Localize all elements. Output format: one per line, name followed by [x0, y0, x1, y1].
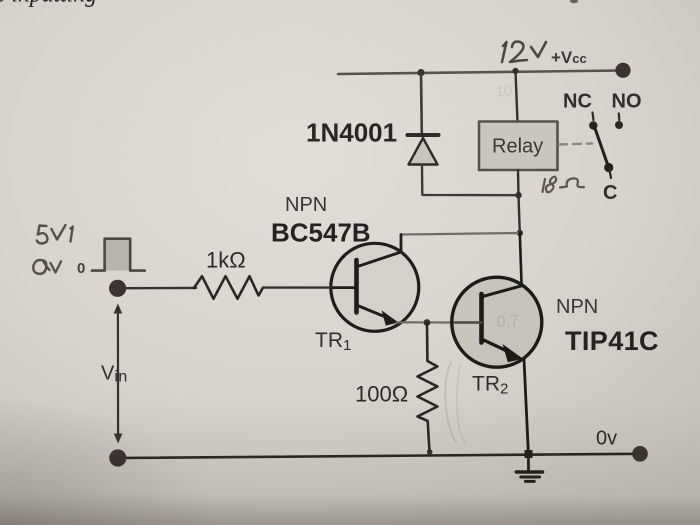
transistor Q1 BC547B circle	[331, 243, 419, 331]
switch arm	[595, 127, 609, 167]
relay box	[479, 122, 558, 171]
Q1 base bar	[354, 260, 359, 313]
dashed relay linkage	[559, 144, 592, 145]
wire diode branch upper	[420, 73, 423, 134]
wire input to resistor	[126, 287, 196, 290]
Q1 emitter stroke with arrow	[358, 306, 389, 319]
svg-text:C: C	[603, 182, 617, 204]
wire junction to TR2 collector	[520, 233, 522, 286]
wire relay branch upper	[516, 71, 518, 122]
resistor R1 1k zigzag	[194, 276, 263, 299]
node junction relay branch on Vcc rail	[512, 68, 518, 74]
Q2 base bar	[479, 294, 484, 343]
Vin arrow double-headed	[114, 304, 123, 444]
wire diode branch lower	[422, 165, 519, 196]
node junction ground stub	[525, 450, 533, 458]
svg-text:NC: NC	[563, 91, 592, 113]
svg-text:0.7: 0.7	[496, 312, 519, 331]
svg-text:+Vcc: +Vcc	[551, 48, 587, 67]
node junction diode branch on Vcc rail	[417, 69, 424, 76]
Q2 collector stroke	[483, 286, 522, 297]
Q1 collector stroke	[358, 235, 402, 267]
switch C contact	[604, 163, 613, 172]
label 0v 0 handwritten	[33, 260, 61, 274]
svg-text:0: 0	[77, 260, 85, 277]
svg-text:NPN: NPN	[556, 296, 598, 318]
diode 1N4001	[408, 135, 439, 165]
svg-text:1N4001: 1N4001	[306, 118, 397, 148]
label 18 ohm handwritten	[543, 177, 585, 193]
svg-text:e inputting: e inputting	[0, 0, 97, 8]
ghost pencil scribble left of TR2	[445, 362, 456, 442]
node junction emitter/base/resistor	[424, 319, 431, 326]
node junction diode-relay	[515, 192, 521, 198]
wire relay to collector junction	[518, 170, 520, 233]
svg-text:Relay: Relay	[492, 136, 543, 158]
terminal input top	[109, 280, 126, 297]
pulse waveform symbol	[106, 240, 131, 271]
wire resistor to Q1 base	[263, 286, 331, 288]
transistor Q2 TIP41C circle	[452, 277, 542, 367]
svg-text:1kΩ: 1kΩ	[206, 248, 246, 273]
svg-text:NPN: NPN	[285, 194, 327, 216]
resistor R2 100ohm vertical	[418, 323, 438, 452]
svg-text:10: 10	[495, 82, 513, 101]
svg-text:BC547B: BC547B	[271, 218, 371, 248]
label 12V handwritten	[502, 42, 546, 62]
terminal 0v right	[632, 446, 648, 462]
label 5V 1 handwritten	[37, 225, 73, 244]
ground	[516, 454, 542, 481]
wire Q2 emitter down to 0v rail	[524, 360, 528, 454]
terminal 0v left	[109, 449, 126, 466]
wire TR1 collector horizontal	[401, 233, 520, 235]
node junction resistor to 0v rail	[427, 449, 433, 455]
Q2 emitter stroke with arrow	[483, 340, 509, 352]
Q2 base lead	[455, 321, 482, 324]
switch NC contact	[593, 113, 594, 121]
svg-text:TIP41C: TIP41C	[565, 326, 659, 356]
svg-text:NO: NO	[612, 91, 642, 113]
wire Q1 emitter to Q2 base	[397, 321, 455, 323]
wire +Vcc top rail	[338, 71, 622, 75]
wire 0v bottom rail	[118, 454, 640, 458]
node junction TR1 collector rail	[517, 230, 523, 236]
svg-text:100Ω: 100Ω	[355, 382, 408, 407]
terminal +Vcc	[615, 63, 630, 78]
Q1 base lead	[331, 286, 357, 289]
stray ink speck top edge	[570, 0, 578, 3]
svg-text:0v: 0v	[596, 428, 617, 450]
switch NO contact	[618, 114, 621, 121]
